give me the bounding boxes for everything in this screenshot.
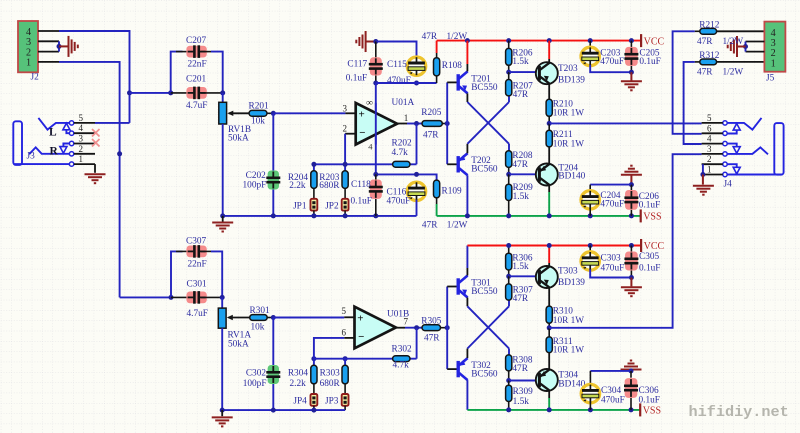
- label R311 value: [553, 346, 584, 356]
- lead C117 bottom: [375, 76, 377, 84]
- label R303 ref: [320, 368, 340, 378]
- svg-text:C301: C301: [187, 279, 207, 289]
- svg-text:R304: R304: [288, 368, 308, 378]
- node V+ node C117: [373, 81, 378, 86]
- wire to J5 ground: [737, 46, 746, 48]
- power port VSS: [640, 403, 661, 416]
- wire U01A pin2 to fb rail: [344, 134, 346, 165]
- lead R108 top: [436, 53, 438, 58]
- label C305 ref: [639, 252, 659, 262]
- wire T204 to VSS rail: [548, 192, 550, 216]
- svg-text:+: +: [359, 109, 365, 121]
- label C201 value: [186, 101, 207, 111]
- node VCC2 C305 node: [629, 243, 634, 248]
- label R207 value: [513, 90, 529, 100]
- lead R309 bottom: [508, 402, 510, 410]
- capacitor C304: [581, 384, 599, 402]
- wire T301 emitter: [466, 298, 468, 307]
- lead C206 bottom: [630, 210, 632, 216]
- node T303 base node: [506, 274, 511, 279]
- label R209 ref: [513, 183, 533, 193]
- ground VCC decoupling ground: [621, 81, 642, 90]
- pin J3.2: [74, 153, 95, 155]
- jack J4 barrel: [774, 123, 783, 175]
- svg-text:JP2: JP2: [325, 201, 339, 211]
- label U01A pin 2: [343, 124, 348, 134]
- wire fb2 drop: [416, 328, 418, 359]
- lead R303-JP3: [344, 384, 346, 394]
- resistor R209: [506, 184, 512, 200]
- svg-text:−: −: [358, 331, 364, 343]
- wire RV1B to ground rail: [222, 124, 224, 216]
- svg-text:C306: C306: [639, 386, 659, 396]
- label RV1A value: [228, 339, 249, 349]
- node C117 top node: [373, 39, 378, 44]
- wire C304 top wire: [590, 370, 631, 372]
- svg-text:10k: 10k: [251, 323, 265, 333]
- resistor R204: [311, 171, 317, 189]
- label J5 designator: [766, 73, 775, 83]
- capacitor C301: [186, 291, 206, 304]
- capacitor C202: [266, 171, 280, 190]
- wire J2.4 to L input: [59, 31, 130, 123]
- wire C117-C115 top wire: [376, 42, 417, 58]
- label R304 value: [290, 379, 307, 389]
- label R205 ref: [421, 108, 441, 118]
- svg-text:C202: C202: [246, 171, 266, 181]
- svg-text:R310: R310: [553, 306, 573, 316]
- op-amp U01B: [355, 307, 396, 349]
- label J3 R channel: [50, 146, 59, 158]
- lead C305 bottom: [630, 271, 632, 278]
- capacitor C302: [266, 365, 280, 384]
- lead C207 right: [201, 51, 211, 53]
- lead C117 top: [375, 42, 377, 59]
- node fb2 rail R303: [343, 356, 348, 361]
- label R306 value: [512, 262, 529, 272]
- svg-text:0.1uF: 0.1uF: [639, 57, 660, 67]
- no-connect X on J3.3: [92, 139, 100, 147]
- label J4 pin 4: [707, 134, 712, 144]
- svg-text:R: R: [50, 146, 59, 158]
- lead C306 top: [630, 371, 632, 378]
- lead JP1 down: [313, 211, 315, 216]
- svg-text:470uF: 470uF: [387, 196, 411, 206]
- resistor R211: [546, 130, 552, 147]
- node C204 top node: [629, 182, 634, 187]
- label C303 ref: [601, 253, 621, 263]
- lead C205 bottom: [630, 66, 632, 72]
- capacitor C116: [407, 182, 425, 200]
- wire R212 left wire: [673, 31, 702, 134]
- jack J4 sleeve switch arrow: [727, 164, 740, 174]
- lead JP3 down: [344, 406, 346, 410]
- svg-text:7: 7: [404, 317, 409, 327]
- svg-text:50kA: 50kA: [228, 134, 249, 144]
- label T304 value: [558, 380, 585, 390]
- label R305 ref: [421, 317, 441, 327]
- ground J2 ground: [69, 36, 78, 57]
- label C118 value: [351, 196, 372, 206]
- node output node L: [547, 121, 552, 126]
- no-connect X on J3.4: [92, 129, 100, 137]
- wire C202 to ground rail: [272, 190, 274, 216]
- jack J4 sleeve line: [727, 174, 782, 176]
- label R206 ref: [512, 49, 532, 59]
- svg-text:5: 5: [79, 113, 84, 123]
- label C206 value: [639, 201, 660, 211]
- label J3 L channel: [49, 127, 57, 139]
- label C115 value: [387, 76, 411, 86]
- label C203 ref: [600, 49, 620, 59]
- svg-text:J3: J3: [27, 152, 36, 162]
- transistor T304: [536, 369, 558, 391]
- resistor R301: [250, 315, 268, 321]
- wire T204 collector: [548, 185, 550, 192]
- wire base column 2: [446, 287, 448, 370]
- lead C204 bottom: [589, 208, 591, 216]
- svg-text:22nF: 22nF: [188, 59, 207, 69]
- wire T203 collector: [548, 59, 550, 63]
- pin U01B.6: [344, 337, 354, 339]
- capacitor C118: [369, 180, 383, 199]
- RV1B wiper: [227, 111, 249, 116]
- svg-text:R303: R303: [320, 368, 340, 378]
- lead C118 top: [375, 174, 377, 180]
- wire T202 collector down: [466, 175, 468, 216]
- label J3 pin 1: [79, 154, 84, 164]
- jack J4 pin 1 circle: [723, 172, 727, 176]
- resistor R312: [700, 59, 717, 65]
- label C302 value: [243, 379, 267, 389]
- label R211 ref: [553, 130, 573, 140]
- label T201 value: [471, 83, 498, 93]
- lead C206 top: [630, 185, 632, 191]
- label R201 value: [251, 116, 265, 126]
- wire gnd to C117: [366, 41, 376, 43]
- svg-text:R211: R211: [553, 130, 573, 140]
- svg-text:1/2W: 1/2W: [447, 220, 468, 230]
- wire node to RV1A: [221, 297, 223, 308]
- svg-text:10R 1W: 10R 1W: [553, 316, 584, 326]
- capacitor C201: [186, 87, 206, 100]
- jack J3 ring contact: [29, 147, 69, 154]
- svg-text:1.5k: 1.5k: [513, 397, 530, 407]
- pin U01B.5: [344, 316, 354, 318]
- op-amp U01A: [356, 98, 397, 151]
- label R303 value: [320, 379, 341, 389]
- wire VCC to R108: [436, 41, 438, 53]
- wire R109 to VSS rail: [436, 204, 438, 216]
- label T301 value: [471, 287, 498, 297]
- label R108 ref: [442, 61, 462, 71]
- wire output R to J4.3: [549, 154, 701, 328]
- jack J3 tip switch arrow: [63, 123, 70, 133]
- wire VSS rail 2: [467, 409, 640, 411]
- svg-text:1: 1: [404, 113, 409, 123]
- pin J2.3: [38, 40, 59, 42]
- resistor R202: [393, 161, 410, 167]
- svg-text:10k: 10k: [251, 116, 265, 126]
- wire R201 to opamp +: [273, 112, 345, 114]
- wire J2 pins 2-3 tie: [58, 41, 60, 51]
- wire X2 right up: [508, 300, 510, 306]
- label RV1A ref: [228, 330, 252, 340]
- svg-text:BC550: BC550: [471, 287, 498, 297]
- jack J3 pin 2 circle: [69, 152, 73, 156]
- svg-text:47R: 47R: [697, 68, 713, 78]
- jack J4 pin 6 circle: [723, 131, 727, 135]
- pin J3.4: [74, 132, 95, 134]
- node VCC C203 node: [588, 38, 593, 43]
- wire T301 collector: [466, 268, 468, 276]
- wire ground rail 2: [222, 409, 345, 411]
- resistor R305: [422, 325, 441, 331]
- label J3 pin 5: [79, 113, 84, 123]
- svg-text:470uF: 470uF: [601, 264, 625, 274]
- lead C201 left: [171, 92, 192, 94]
- wire T201 base: [447, 81, 457, 83]
- label R109 ref: [442, 186, 462, 196]
- svg-text:C115: C115: [387, 60, 407, 70]
- lead R312 left: [695, 61, 700, 63]
- node VCC2 C303 node: [588, 243, 593, 248]
- svg-text:6: 6: [342, 327, 347, 337]
- lead C306 bottom: [630, 398, 632, 410]
- svg-text:J5: J5: [766, 73, 775, 83]
- lead C304 top: [589, 371, 591, 386]
- label R312 value 47R: [697, 68, 713, 78]
- node gnd rail JP1: [311, 213, 316, 218]
- lead R201 right: [267, 112, 272, 114]
- label T302 value: [471, 370, 498, 380]
- resistor R109: [434, 180, 440, 198]
- label C304 value: [601, 396, 625, 406]
- label R307 ref: [513, 286, 533, 296]
- svg-text:5: 5: [707, 113, 712, 123]
- wire J4.2 to J4.1: [702, 164, 704, 174]
- wire to T203 base: [509, 71, 536, 73]
- jack J3 pin 3 circle: [69, 141, 73, 145]
- label C201 ref: [186, 75, 206, 85]
- lead JP2 down: [344, 211, 346, 216]
- svg-text:4.7k: 4.7k: [392, 148, 409, 158]
- svg-text:0.1uF: 0.1uF: [639, 201, 660, 211]
- wire T202 emitter up: [466, 144, 468, 154]
- wire C207 left bracket: [171, 52, 183, 93]
- svg-text:3: 3: [79, 134, 84, 144]
- pin J5.2: [746, 51, 765, 53]
- svg-text:C117: C117: [347, 59, 367, 69]
- wire T201 emitter: [466, 93, 468, 102]
- capacitor C204: [581, 191, 599, 209]
- power port VCC: [641, 34, 664, 47]
- label R204 value: [289, 181, 306, 191]
- jumper JP2: [342, 199, 349, 211]
- lead R209 top: [508, 174, 510, 184]
- power port VCC: [641, 239, 664, 252]
- node J5 gnd node: [743, 44, 748, 49]
- svg-text:R309: R309: [513, 387, 533, 397]
- capacitor C205: [624, 47, 638, 66]
- wire fb rail to R203: [344, 164, 346, 171]
- jack J3 ring switch arrow: [60, 144, 70, 154]
- wire T301 collector blue: [466, 246, 468, 269]
- svg-text:2: 2: [343, 124, 348, 134]
- pin U01B.7 output: [396, 327, 405, 329]
- label C204 ref: [600, 191, 620, 201]
- label C205 ref: [639, 48, 659, 58]
- jack J4 pin 3 circle: [723, 152, 727, 156]
- wire R301 to opamp +: [273, 317, 344, 319]
- svg-text:10R 1W: 10R 1W: [553, 139, 584, 149]
- lead R308 bottom: [508, 371, 510, 381]
- svg-text:4: 4: [707, 134, 712, 144]
- lead C301 right: [201, 296, 222, 298]
- label T303 value: [558, 278, 585, 288]
- node VCC T201 node: [465, 38, 470, 43]
- label T203 ref: [558, 64, 578, 74]
- label C307 ref: [186, 236, 206, 246]
- wire gnd stem: [630, 72, 632, 80]
- label R308 ref: [512, 355, 532, 365]
- lead R206 top: [508, 41, 510, 49]
- svg-text:C302: C302: [246, 369, 266, 379]
- wire T202 base: [447, 163, 457, 165]
- lead R306 top: [508, 246, 510, 254]
- wire base column: [446, 82, 448, 164]
- label T302 ref: [471, 361, 491, 371]
- svg-text:47R: 47R: [423, 130, 439, 140]
- jack J4 tip contact: [727, 118, 761, 130]
- resistor R309: [506, 385, 512, 401]
- label C116 ref: [387, 187, 407, 197]
- svg-text:+: +: [357, 312, 363, 324]
- lead C201 right: [201, 92, 223, 94]
- svg-text:680R: 680R: [319, 181, 340, 191]
- svg-text:0.1uF: 0.1uF: [351, 196, 372, 206]
- capacitor C203: [581, 47, 599, 65]
- ground opamp ground: [356, 31, 365, 52]
- svg-text:BC550: BC550: [471, 83, 498, 93]
- label R203 value: [319, 181, 340, 191]
- wire fb2 rail to R303: [344, 359, 346, 366]
- node gnd rail RV1B: [220, 213, 225, 218]
- label C301 ref: [187, 279, 207, 289]
- node caps2 right node: [220, 295, 225, 300]
- RV1A wiper: [227, 315, 250, 320]
- jack J4 ring switch arrow: [727, 144, 740, 154]
- svg-text:47R: 47R: [697, 37, 713, 47]
- lead C118 bottom: [375, 199, 377, 216]
- svg-text:0.1uF: 0.1uF: [346, 74, 367, 84]
- pin J3.1: [74, 163, 95, 165]
- wire node to C302: [272, 318, 274, 366]
- label C305 value: [639, 264, 660, 274]
- svg-text:1/2W: 1/2W: [723, 68, 744, 78]
- ground signal ground above C306: [621, 361, 642, 370]
- label C205 value: [639, 57, 660, 67]
- resistor R201: [249, 110, 267, 116]
- resistor R212: [700, 28, 717, 34]
- svg-text:47R: 47R: [422, 32, 438, 42]
- label R208 ref: [512, 151, 532, 161]
- wire R211 to T204: [548, 147, 550, 165]
- wire T203 emitter: [548, 83, 550, 99]
- node R input node at J3.2: [117, 151, 122, 156]
- label R205 value: [423, 130, 439, 140]
- lead R205 right: [442, 123, 447, 125]
- wire VCC rail bottom: [467, 245, 641, 247]
- svg-text:U01A: U01A: [392, 98, 415, 108]
- potentiometer RV1A: [218, 308, 226, 328]
- label J3 designator: [27, 152, 36, 162]
- label JP4 ref: [293, 397, 307, 407]
- label T304 ref: [558, 370, 578, 380]
- svg-text:47R: 47R: [513, 90, 529, 100]
- lead R207 top: [508, 72, 510, 79]
- wire T304 collector: [548, 390, 550, 398]
- resistor R210: [546, 99, 552, 116]
- wire R input to caps: [120, 296, 171, 298]
- node VCC2 R306 node: [506, 243, 511, 248]
- label T202 ref: [471, 156, 491, 166]
- node VSS2 R309 node: [506, 407, 511, 412]
- label T204 ref: [558, 163, 578, 173]
- pin J4.5: [702, 122, 723, 124]
- label R306 ref: [512, 253, 532, 263]
- label R311 ref: [553, 337, 573, 347]
- label T204 value: [558, 172, 585, 182]
- label J3 pin 2: [79, 144, 84, 154]
- node caps2 left node: [169, 295, 174, 300]
- lead R211 top: [548, 123, 550, 130]
- wire T303 collector: [548, 263, 550, 267]
- label T201 ref: [471, 74, 491, 84]
- ground J5 ground: [728, 36, 737, 57]
- svg-text:C304: C304: [601, 386, 621, 396]
- svg-text:1: 1: [771, 58, 776, 69]
- pin U01A.1 output: [397, 123, 407, 125]
- node gnd rail JP2: [343, 213, 348, 218]
- node fb node on output: [414, 121, 419, 126]
- connector J2: [18, 21, 38, 72]
- node V+ node C115: [414, 81, 419, 86]
- node gnd rail C202: [271, 213, 276, 218]
- label R201 ref: [249, 102, 269, 112]
- resistor R311: [546, 337, 552, 353]
- svg-text:0.1uF: 0.1uF: [639, 396, 660, 406]
- wire ground rail: [223, 215, 417, 217]
- wire node to C202: [272, 113, 274, 170]
- capacitor C207: [186, 45, 206, 58]
- transistor T301: [458, 276, 467, 298]
- svg-text:C303: C303: [601, 253, 621, 263]
- label J4 pin 6: [707, 123, 712, 133]
- label RV1B value: [228, 134, 249, 144]
- label C207 ref: [186, 36, 206, 46]
- wire C307 right bracket: [211, 251, 222, 297]
- lead C303 top: [589, 246, 591, 253]
- node VCC T203 node: [547, 38, 552, 43]
- svg-text:R301: R301: [250, 306, 270, 316]
- label U01B pin 6: [342, 327, 347, 337]
- lead R209 bottom: [508, 201, 510, 216]
- label R108 value 47R: [422, 32, 438, 42]
- potentiometer RV1B: [219, 102, 227, 124]
- resistor R307: [506, 284, 512, 300]
- label R309 ref: [513, 387, 533, 397]
